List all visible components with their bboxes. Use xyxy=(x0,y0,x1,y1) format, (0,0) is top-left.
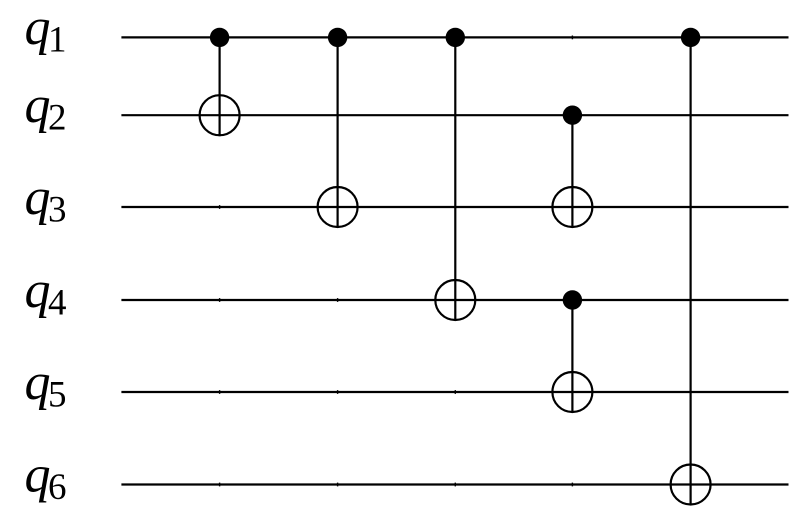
CNOT 1 connector q1-q2 xyxy=(219,37,221,136)
svg-text:q2: q2 xyxy=(25,77,67,139)
CNOT 1 target on q2 xyxy=(200,95,240,135)
junction tick col3 on q5 xyxy=(454,390,456,394)
CNOT 2 connector q1-q3 xyxy=(337,37,339,228)
wire q4 xyxy=(121,299,788,301)
wire q3 xyxy=(121,206,788,208)
svg-text:q3: q3 xyxy=(25,169,67,231)
junction tick col1 on q5 xyxy=(219,390,221,394)
CNOT 5 connector q4-q5 xyxy=(571,300,573,413)
CNOT 5 control dot on q4 xyxy=(563,290,582,309)
svg-text:q5: q5 xyxy=(25,354,67,416)
CNOT 2 target on q3 xyxy=(318,187,358,227)
CNOT 3 connector q1-q4 xyxy=(454,37,456,321)
CNOT 6 connector q1-q6 xyxy=(689,37,691,505)
junction tick col2 on q5 xyxy=(337,390,339,394)
junction tick col1 on q4 xyxy=(219,298,221,302)
wire q5 xyxy=(121,391,788,393)
CNOT 6 target on q6 xyxy=(671,465,711,505)
CNOT 3 control dot on q1 xyxy=(446,28,465,47)
svg-text:q6: q6 xyxy=(25,446,67,508)
junction tick col1 on q6 xyxy=(219,483,221,487)
junction tick col3 on q6 xyxy=(454,483,456,487)
svg-text:q4: q4 xyxy=(25,262,67,324)
CNOT 3 target on q4 xyxy=(435,280,475,320)
CNOT 2 control dot on q1 xyxy=(328,28,347,47)
wire q6 xyxy=(121,483,788,485)
CNOT 4 connector q2-q3 xyxy=(571,115,573,228)
junction tick col4 on q1 xyxy=(571,36,573,40)
junction tick col4 on q6 xyxy=(571,483,573,487)
junction tick col2 on q4 xyxy=(337,298,339,302)
CNOT 1 control dot on q1 xyxy=(210,28,229,47)
junction tick col1 on q3 xyxy=(219,205,221,209)
wire q1 xyxy=(121,36,788,38)
CNOT 6 control dot on q1 xyxy=(681,28,700,47)
CNOT 5 target on q5 xyxy=(552,372,592,412)
CNOT 4 target on q3 xyxy=(552,187,592,227)
CNOT 4 control dot on q2 xyxy=(563,106,582,125)
wire q2 xyxy=(121,114,788,116)
svg-text:q1: q1 xyxy=(25,0,67,61)
junction tick col2 on q6 xyxy=(337,483,339,487)
